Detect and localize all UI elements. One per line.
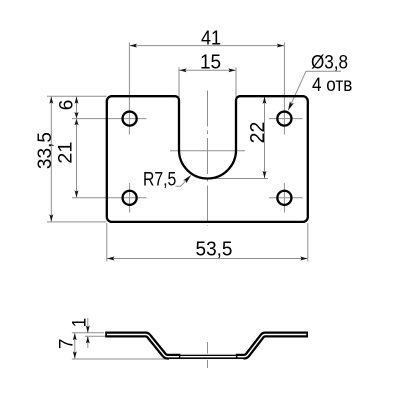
- svg-text:Ø3,8: Ø3,8: [311, 52, 348, 73]
- svg-text:41: 41: [201, 28, 221, 50]
- svg-text:22: 22: [246, 122, 269, 144]
- svg-text:6: 6: [56, 100, 77, 111]
- svg-text:1: 1: [69, 318, 90, 328]
- svg-text:R7,5: R7,5: [143, 168, 176, 190]
- svg-text:33,5: 33,5: [35, 132, 56, 169]
- svg-text:21: 21: [55, 142, 76, 164]
- svg-text:7: 7: [57, 339, 78, 350]
- svg-text:53,5: 53,5: [196, 238, 233, 261]
- svg-text:15: 15: [200, 51, 221, 74]
- svg-text:4 отв: 4 отв: [312, 74, 352, 95]
